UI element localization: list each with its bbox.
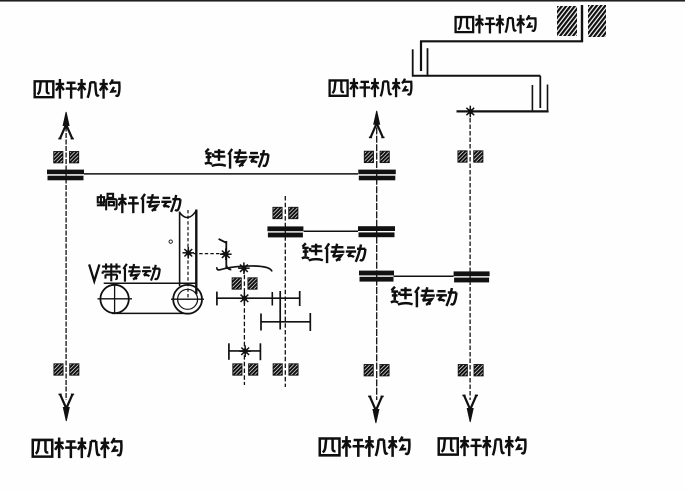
middle shaft arrow down — [368, 396, 384, 423]
gear block connector bar — [279, 291, 281, 330]
shaft B top bearing — [273, 207, 298, 218]
chain drive 2 line — [304, 230, 358, 232]
belt bottom line — [112, 312, 184, 314]
shaft B bottom bearing — [273, 364, 298, 375]
label: V-belt drive — [89, 263, 160, 281]
four-bar link: right drop rod — [539, 76, 541, 108]
label: four-bar bottom-right — [439, 436, 526, 456]
label: four-bar bottom-left — [33, 438, 122, 459]
belt top line — [104, 282, 196, 284]
G3 mesh star — [239, 345, 251, 357]
worm symbol vertical — [225, 241, 227, 268]
gear line G3 — [229, 350, 261, 352]
middle shaft arrow up — [369, 111, 385, 138]
label: four-bar top-middle — [330, 78, 412, 97]
worm shaft center line — [187, 210, 189, 300]
left shaft — [65, 120, 67, 400]
left shaft arrow down — [59, 394, 75, 421]
worm wheel star — [238, 262, 250, 274]
middle shaft top bearing — [364, 151, 389, 162]
G3 right T-cap — [259, 343, 261, 360]
middle shaft — [376, 119, 378, 400]
shaft A (worm wheel shaft) — [243, 268, 245, 385]
worm symbol bottom hook — [226, 265, 231, 269]
joint star on crank — [465, 106, 477, 118]
worm body left line — [179, 212, 181, 287]
label: four-bar bottom-middle — [320, 436, 410, 457]
label: chain drive 2 — [302, 243, 366, 263]
shaft A mid bearing — [232, 278, 257, 289]
worm symbol top hook — [219, 239, 227, 243]
right shaft top bearing — [458, 151, 483, 162]
label: chain drive 3 — [391, 287, 457, 308]
four-bar link: crank bar — [457, 110, 549, 112]
worm body right line — [195, 210, 197, 295]
worm joint star — [220, 248, 232, 260]
gear line G1 — [216, 297, 299, 299]
worm wheel arc — [217, 266, 272, 272]
ground hatch block left — [557, 6, 577, 36]
left sprocket S1 — [47, 170, 84, 181]
label: chain drive 1 — [205, 149, 269, 169]
middle sprocket S2 — [358, 170, 396, 181]
G1 left T-cap — [216, 292, 218, 306]
four-bar link: fixed pivot post — [581, 5, 583, 42]
left shaft arrow up — [58, 112, 74, 139]
V-belt pulley left — [98, 284, 133, 314]
right shaft — [469, 112, 471, 401]
middle shaft bottom bearing — [364, 365, 389, 376]
worm shaft joint star — [183, 247, 195, 259]
four-bar link: left drop rod — [420, 41, 422, 71]
G2 right T-cap — [309, 313, 311, 331]
label: four-bar top-left — [35, 79, 120, 99]
chain drive 1 line — [84, 173, 358, 175]
G3 left T-cap — [228, 343, 230, 360]
right shaft arrow down — [462, 395, 478, 422]
worm body top arc — [180, 211, 197, 218]
speck mark — [169, 240, 172, 243]
G2 left T-cap — [260, 314, 262, 331]
four-bar link: middle bar — [412, 75, 541, 77]
right shaft bottom bearing — [458, 365, 483, 376]
slider guide left pair — [412, 49, 414, 76]
worm wheel axis dashed line — [188, 253, 226, 255]
left shaft top bearing — [54, 152, 79, 163]
G1 right T-cap — [299, 291, 301, 306]
shaft B sprocket S5 — [267, 226, 303, 237]
shaft B — [284, 196, 286, 387]
right sprocket S6 — [454, 271, 490, 282]
G1 mid T-cap — [271, 292, 273, 306]
ground hatch block right — [588, 5, 606, 37]
V-belt pulley right — [171, 285, 204, 314]
gear line G2 — [261, 321, 310, 323]
middle sprocket S3 — [358, 226, 395, 237]
label: worm drive — [97, 194, 181, 213]
label: four-bar top-right — [456, 15, 536, 34]
chain drive 3 line — [394, 275, 454, 277]
G1 mesh star — [239, 293, 251, 305]
top border line — [0, 0, 685, 2]
slider guide right pair — [531, 85, 533, 110]
four-bar link: top bar — [420, 40, 583, 42]
left shaft bottom bearing — [54, 364, 79, 375]
shaft A bottom bearing — [233, 364, 258, 375]
middle sprocket S4 — [359, 271, 394, 282]
